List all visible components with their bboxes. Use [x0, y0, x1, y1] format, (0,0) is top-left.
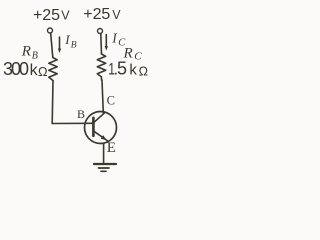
svg-text:C: C — [118, 38, 126, 49]
svg-text:+25: +25 — [33, 7, 60, 24]
wire (emitter to ground) — [103, 143, 105, 163]
svg-text:k: k — [129, 62, 137, 79]
current arrow IC — [105, 35, 107, 47]
ground — [94, 163, 116, 165]
svg-text:+25: +25 — [83, 6, 110, 23]
transistor Q1 collector stroke — [94, 113, 104, 122]
svg-text:5: 5 — [117, 59, 127, 79]
transistor Q1 base bar — [92, 118, 95, 136]
svg-text:Ω: Ω — [38, 64, 48, 79]
wire (base horizontal) — [52, 122, 93, 124]
resistor RC — [97, 54, 105, 80]
svg-text:V: V — [61, 8, 70, 22]
transistor Q1 emitter stroke — [94, 131, 107, 140]
wire (RB bottom down to corner) — [51, 81, 54, 124]
transistor Q1 body — [85, 112, 117, 144]
svg-text:B: B — [32, 51, 38, 62]
wire (RC bottom to collector) — [102, 80, 103, 113]
wire (right terminal to RC top) — [100, 34, 103, 54]
transistor Q1 emitter arrowhead — [101, 135, 107, 140]
svg-text:B: B — [77, 107, 85, 121]
svg-text:B: B — [71, 40, 77, 50]
wire (left terminal to RB top) — [51, 33, 53, 57]
terminal (right supply) — [98, 29, 103, 34]
svg-text:I: I — [64, 32, 70, 47]
svg-text:Ω: Ω — [139, 65, 148, 79]
svg-text:R: R — [21, 44, 31, 60]
svg-text:300: 300 — [3, 59, 29, 79]
svg-text:V: V — [112, 8, 121, 22]
terminal (left supply) — [48, 28, 53, 33]
current arrow IB — [59, 37, 61, 49]
resistor RB — [49, 58, 57, 81]
svg-text:C: C — [107, 94, 115, 108]
svg-text:E: E — [107, 140, 116, 156]
